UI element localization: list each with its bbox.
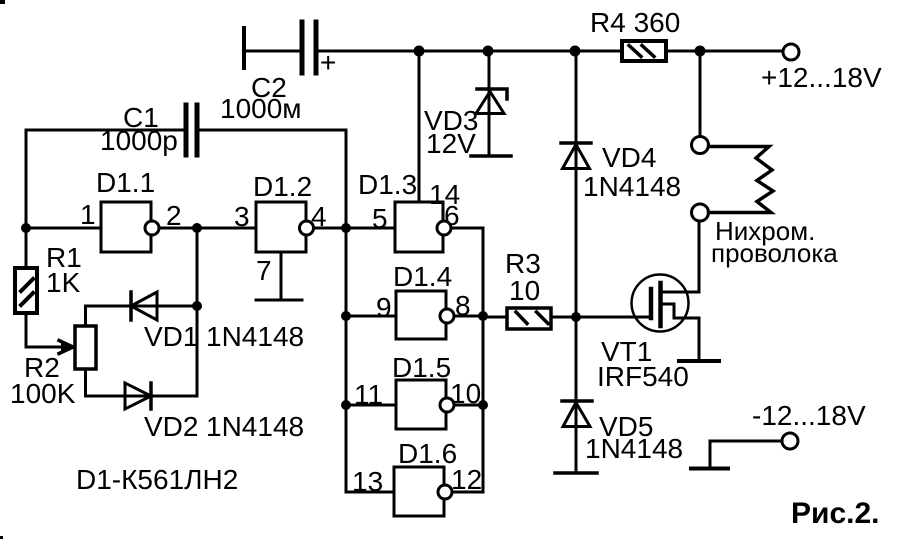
node output bus row3 bbox=[478, 400, 488, 410]
svg-text:+12...18V: +12...18V bbox=[761, 62, 882, 93]
svg-text:D1.3: D1.3 bbox=[358, 169, 417, 200]
wire D1.3 input bbox=[346, 227, 395, 230]
svg-text:VD4: VD4 bbox=[602, 142, 656, 173]
zener VD3 bbox=[471, 51, 511, 156]
svg-text:D1.5: D1.5 bbox=[392, 352, 451, 383]
node rail VD4 bbox=[570, 46, 581, 57]
wiper arrow bbox=[61, 342, 75, 352]
node rail pin14 bbox=[414, 46, 425, 57]
diode VD1 bbox=[86, 292, 198, 320]
svg-text:+: + bbox=[320, 47, 336, 78]
svg-text:1K: 1K bbox=[46, 267, 81, 298]
diode VD5 bbox=[555, 317, 597, 473]
svg-text:D1.2: D1.2 bbox=[253, 171, 312, 202]
wire D1.3 out bbox=[452, 227, 483, 230]
svg-text:1N4148: 1N4148 bbox=[206, 321, 304, 352]
svg-text:-12...18V: -12...18V bbox=[752, 400, 866, 431]
wire D1.1 input bbox=[26, 227, 101, 230]
wire R2 top to VD1 bbox=[84, 306, 87, 326]
wire D1.2 out bbox=[315, 227, 346, 230]
svg-text:13: 13 bbox=[352, 466, 383, 497]
svg-text:12: 12 bbox=[451, 464, 482, 495]
resistor R3 bbox=[483, 308, 576, 329]
svg-text:Рис.2.: Рис.2. bbox=[791, 497, 880, 530]
node input bus row3 bbox=[341, 400, 351, 410]
pin 7 wire bbox=[280, 252, 283, 300]
terminal nichrome bottom bbox=[692, 204, 709, 221]
terminal +12V bbox=[783, 44, 799, 60]
svg-text:IRF540: IRF540 bbox=[597, 361, 689, 392]
resistor R1 bbox=[15, 268, 37, 313]
svg-text:1000p: 1000p bbox=[100, 125, 178, 156]
svg-text:11: 11 bbox=[354, 379, 383, 410]
inverter D1.2 bbox=[256, 202, 314, 252]
resistor R4 bbox=[622, 41, 666, 61]
wire left rail bbox=[25, 130, 28, 347]
wire D1.4 input bbox=[346, 315, 396, 318]
svg-text:VD1: VD1 bbox=[144, 321, 198, 352]
svg-text:10: 10 bbox=[509, 275, 540, 306]
node gate bbox=[571, 312, 581, 322]
capacitor C2 bbox=[244, 22, 316, 73]
inverter D1.6 bbox=[394, 467, 452, 516]
svg-text:1: 1 bbox=[80, 199, 96, 230]
inverter D1.4 bbox=[396, 291, 454, 339]
svg-text:VD2: VD2 bbox=[144, 411, 198, 442]
svg-text:2: 2 bbox=[166, 200, 182, 231]
wire R2 bottom to VD2 bbox=[84, 369, 87, 396]
pin 14 wire bbox=[418, 51, 421, 202]
svg-text:9: 9 bbox=[376, 292, 392, 323]
svg-text:R4 360: R4 360 bbox=[590, 7, 680, 38]
wire top +V rail bbox=[318, 50, 783, 53]
node left rail junction bbox=[21, 223, 31, 233]
wire D1.6 input bbox=[346, 491, 394, 494]
wire D1.1 out to D1.2 in bbox=[160, 227, 256, 230]
inverter D1.3 bbox=[395, 202, 451, 252]
svg-text:100K: 100K bbox=[10, 378, 76, 409]
wire gate bbox=[576, 316, 649, 319]
potentiometer R2 bbox=[75, 326, 96, 369]
node rail VD3 bbox=[483, 46, 494, 57]
svg-text:D1.4: D1.4 bbox=[393, 261, 452, 292]
svg-text:5: 5 bbox=[372, 203, 388, 234]
wire -12V to ground bbox=[710, 441, 782, 468]
wire output bus vertical bbox=[482, 228, 485, 492]
svg-text:7: 7 bbox=[256, 255, 272, 286]
diode VD2 bbox=[86, 383, 198, 409]
node output bus row2 bbox=[478, 311, 488, 321]
inverter D1.1 bbox=[101, 202, 159, 252]
svg-text:D1.1: D1.1 bbox=[96, 167, 155, 198]
terminal -12V bbox=[782, 433, 798, 449]
wire D1.5 out bbox=[455, 404, 483, 407]
wire D1.6 out bbox=[453, 491, 483, 494]
wire D1.4 out bbox=[455, 315, 483, 318]
wire node A down to VD1/VD2 bbox=[196, 228, 199, 396]
nichrome wire element bbox=[709, 147, 774, 213]
svg-text:1N4148: 1N4148 bbox=[585, 433, 683, 464]
node input bus row2 bbox=[341, 311, 351, 321]
svg-text:1N4148: 1N4148 bbox=[206, 411, 304, 442]
svg-text:D1.6: D1.6 bbox=[398, 438, 457, 469]
ground pin 7 bbox=[256, 299, 302, 302]
inverter D1.5 bbox=[396, 380, 454, 429]
svg-text:6: 6 bbox=[444, 200, 460, 231]
diode VD4 bbox=[561, 51, 591, 317]
wire to nichrome top bbox=[699, 51, 702, 136]
node input bus top bbox=[341, 223, 351, 233]
ground -12V bbox=[691, 467, 728, 471]
svg-text:1N4148: 1N4148 bbox=[583, 171, 681, 202]
node rail nichrome bbox=[695, 46, 706, 57]
svg-text:проволока: проволока bbox=[711, 238, 838, 268]
node A bbox=[192, 223, 202, 233]
capacitor C1 bbox=[26, 105, 346, 155]
svg-text:1000м: 1000м bbox=[220, 93, 302, 124]
terminal nichrome top bbox=[692, 137, 709, 154]
wire D1.5 input bbox=[346, 404, 396, 407]
transistor VT1 bbox=[632, 221, 720, 361]
svg-text:3: 3 bbox=[234, 201, 250, 232]
svg-text:D1-К561ЛН2: D1-К561ЛН2 bbox=[76, 464, 238, 495]
wire input bus vertical bbox=[345, 130, 348, 492]
svg-text:12V: 12V bbox=[426, 128, 476, 159]
wire R1 to R2 wiper bbox=[26, 346, 68, 349]
